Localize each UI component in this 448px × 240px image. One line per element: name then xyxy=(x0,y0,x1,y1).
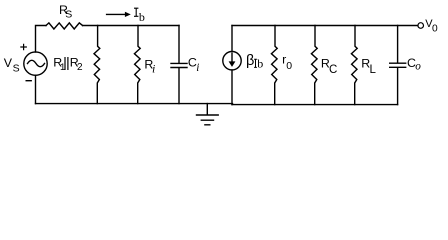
wire bottom bus right xyxy=(232,104,398,106)
wire bottom bus left xyxy=(36,103,233,105)
resistor r0 xyxy=(271,26,277,105)
capacitor Co xyxy=(390,26,406,105)
svg-text:o: o xyxy=(415,60,421,72)
svg-text:0: 0 xyxy=(432,24,438,35)
wire Ib arrow xyxy=(107,13,127,15)
label Ib xyxy=(134,8,138,16)
svg-text:0: 0 xyxy=(286,60,292,72)
svg-text:V: V xyxy=(4,56,13,70)
svg-text:C: C xyxy=(329,64,337,76)
plus sign xyxy=(21,44,26,49)
svg-text:L: L xyxy=(370,64,377,76)
svg-text:2: 2 xyxy=(77,62,83,73)
resistor RS xyxy=(46,23,83,29)
wire top bus left xyxy=(36,26,47,53)
wire top bus to Ci xyxy=(83,25,179,27)
resistor RL xyxy=(351,26,357,105)
resistor R1||R2 xyxy=(94,26,100,104)
ground xyxy=(197,104,219,125)
arrowhead Ib xyxy=(125,12,131,17)
arrowhead current source xyxy=(229,61,236,67)
voltage source VS xyxy=(24,52,47,75)
svg-text:S: S xyxy=(13,62,20,74)
svg-text:S: S xyxy=(65,9,72,21)
svg-text:b: b xyxy=(139,10,145,24)
svg-text:i: i xyxy=(196,62,199,74)
svg-text:b: b xyxy=(257,57,263,71)
node V0 terminal xyxy=(418,23,424,29)
wire VS bottom xyxy=(35,75,37,103)
svg-text:i: i xyxy=(152,62,155,76)
minus sign xyxy=(26,80,31,82)
svg-text:β: β xyxy=(246,53,254,69)
capacitor Ci xyxy=(171,26,187,104)
wire top bus right xyxy=(232,25,418,27)
resistor Ri xyxy=(134,26,140,104)
current source beta Ib xyxy=(231,26,233,52)
resistor RC xyxy=(311,26,317,105)
